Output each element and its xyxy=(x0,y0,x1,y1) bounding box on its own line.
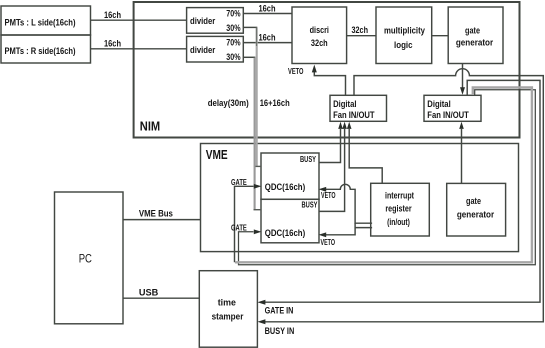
wire discri to multiplicity 32ch xyxy=(347,35,376,37)
svg-text:16ch: 16ch xyxy=(259,3,276,13)
svg-text:gate: gate xyxy=(465,25,480,35)
gate generator box (NIM) xyxy=(448,7,503,64)
svg-text:gate: gate xyxy=(466,196,481,206)
arrowhead VETO1 into QDC1 xyxy=(319,187,327,192)
svg-text:Fan IN/OUT: Fan IN/OUT xyxy=(427,110,469,120)
svg-text:32ch: 32ch xyxy=(311,38,328,48)
wire VME Bus xyxy=(123,219,201,221)
svg-text:VME Bus: VME Bus xyxy=(139,209,173,219)
svg-text:discri: discri xyxy=(310,25,329,35)
wire line B gate to time stamper GATE IN xyxy=(265,80,541,302)
wire GATE2 dark return path right side xyxy=(239,90,536,265)
arrowhead GATE2 into QDC2 xyxy=(254,229,262,234)
arrowhead BUSY IN into time stamper xyxy=(257,319,265,324)
delay wire dark upper segment xyxy=(256,27,258,46)
svg-text:16ch: 16ch xyxy=(104,10,121,20)
svg-text:VETO: VETO xyxy=(321,191,336,200)
svg-text:BUSY: BUSY xyxy=(302,201,318,210)
wire BUSY1 QDC1 to Fan IN/OUT xyxy=(319,129,341,163)
wire GATE1 from gray bundle to QDC1 xyxy=(235,186,254,262)
delay bundle gray wire 1 to QDC1 xyxy=(255,28,257,210)
svg-text:USB: USB xyxy=(139,288,158,298)
svg-text:VETO: VETO xyxy=(288,66,304,76)
svg-text:32ch: 32ch xyxy=(352,25,369,35)
wire divider1 70% to discri 16ch xyxy=(243,13,292,15)
wire VETO to discri from Fan IN/OUT left xyxy=(314,72,345,95)
PMT R box xyxy=(1,35,91,63)
wire divider1 30% to delay xyxy=(243,26,257,28)
arrowhead BUSY2 up xyxy=(342,122,347,129)
svg-text:70%: 70% xyxy=(226,8,240,18)
interrupt register (in/out) box xyxy=(371,183,430,236)
wire BUSY2 QDC2 to Fan IN/OUT xyxy=(319,129,345,211)
arrowhead GATE IN into time stamper xyxy=(257,300,265,305)
multiplicity logic box xyxy=(376,7,432,64)
svg-text:multiplicity: multiplicity xyxy=(384,26,425,36)
svg-text:logic: logic xyxy=(394,40,413,50)
divider 2 box xyxy=(187,36,244,62)
wire VME gate generator up to right Fan IN/OUT xyxy=(461,129,463,183)
PMT L box xyxy=(1,6,91,35)
svg-text:BUSY: BUSY xyxy=(300,155,316,164)
PC box xyxy=(55,192,124,324)
svg-text:70%: 70% xyxy=(226,38,240,48)
svg-text:QDC(16ch): QDC(16ch) xyxy=(265,182,305,192)
wire PMT-R to divider2 16ch xyxy=(91,48,187,50)
arrowhead gate gen into right Fan IN/OUT xyxy=(460,87,465,95)
svg-text:16ch: 16ch xyxy=(104,38,121,48)
gray GATE bundle from right Fan IN/OUT around right side to QDC gates xyxy=(235,88,532,263)
delay entry stub into QDC2 xyxy=(254,209,262,211)
svg-text:stamper: stamper xyxy=(212,312,244,322)
QDC 2 box xyxy=(261,199,319,243)
arrowhead VME gate gen up into right Fan IN/OUT xyxy=(459,122,464,129)
wire multiplicity to gate generator xyxy=(432,35,449,37)
svg-text:PMTs : L side(16ch): PMTs : L side(16ch) xyxy=(5,18,76,28)
arrowhead interrupt up xyxy=(347,122,352,129)
svg-text:Digital: Digital xyxy=(427,99,450,109)
svg-text:30%: 30% xyxy=(226,52,240,62)
wire divider2 30% to delay xyxy=(243,56,255,58)
wire BUSY-out line A with hop to right edge down to BUSY IN xyxy=(265,69,544,322)
delay bundle gray wire 2 to QDC2 xyxy=(254,58,256,210)
wire USB xyxy=(123,297,199,299)
svg-text:BUSY IN: BUSY IN xyxy=(265,326,295,336)
svg-text:time: time xyxy=(218,297,236,307)
arrowhead VETO into discri xyxy=(312,65,317,73)
wire VETO1 from interrupt register to QDC1 with hop xyxy=(326,184,372,223)
QDC 1 box xyxy=(261,153,319,199)
svg-text:VETO: VETO xyxy=(321,238,336,247)
wire divider2 70% to discri 16ch xyxy=(243,42,292,44)
arrowhead BUSY1 up xyxy=(338,122,343,129)
time stamper box xyxy=(199,271,257,348)
left Digital Fan IN/OUT box xyxy=(330,95,387,121)
svg-text:PMTs : R side(16ch): PMTs : R side(16ch) xyxy=(5,46,76,56)
svg-text:delay(30m): delay(30m) xyxy=(208,98,249,108)
svg-text:GATE IN: GATE IN xyxy=(265,305,294,315)
svg-text:generator: generator xyxy=(457,210,495,220)
NIM crate box xyxy=(134,2,520,138)
wire interrupt register to Fan IN/OUT xyxy=(349,129,382,183)
svg-text:NIM: NIM xyxy=(140,120,160,134)
wire PMT-L to divider1 16ch xyxy=(91,19,187,21)
gate generator box (VME) xyxy=(447,183,506,236)
svg-text:VME: VME xyxy=(206,148,228,162)
svg-text:16+16ch: 16+16ch xyxy=(260,98,290,108)
svg-text:16ch: 16ch xyxy=(259,33,276,43)
svg-text:GATE: GATE xyxy=(231,178,247,187)
svg-text:Digital: Digital xyxy=(333,99,356,109)
svg-text:PC: PC xyxy=(79,252,92,266)
VME crate box xyxy=(201,144,519,252)
right Digital Fan IN/OUT box xyxy=(424,95,481,121)
svg-text:GATE: GATE xyxy=(231,223,247,232)
arrowhead GATE1 into QDC1 xyxy=(254,184,262,189)
delay entry stub into QDC1 xyxy=(256,165,262,167)
wire gate generator output down to Digital Fan IN/OUT right xyxy=(462,64,464,89)
arrowhead VETO2 into QDC2 xyxy=(319,232,327,237)
wire VETO2 from interrupt register to QDC2 xyxy=(326,223,372,235)
svg-text:divider: divider xyxy=(190,16,216,26)
svg-text:Fan IN/OUT: Fan IN/OUT xyxy=(333,110,375,120)
svg-text:30%: 30% xyxy=(226,23,240,33)
svg-text:divider: divider xyxy=(190,45,216,55)
svg-text:QDC(16ch): QDC(16ch) xyxy=(265,228,305,238)
divider 1 box xyxy=(187,8,244,34)
discri box U-discri xyxy=(292,7,347,64)
svg-text:generator: generator xyxy=(456,37,494,47)
